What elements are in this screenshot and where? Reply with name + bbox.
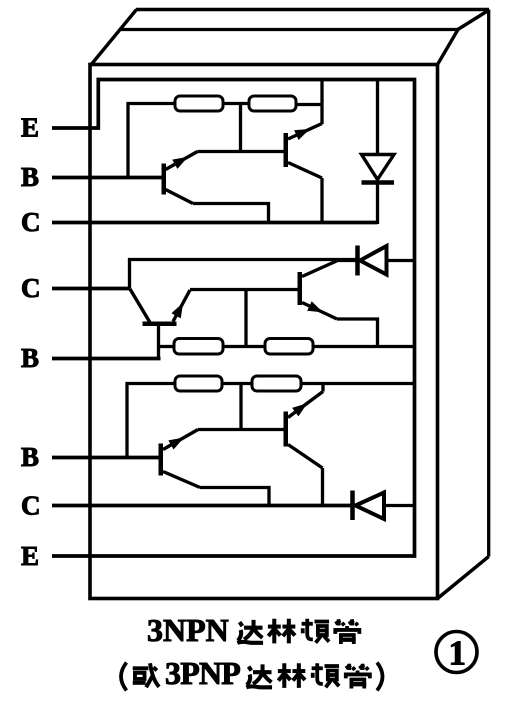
transistor Q2 [284, 124, 323, 179]
pin label E (top) [21, 113, 39, 143]
diode D2 (cathode left, anode to E rail) [358, 246, 415, 276]
wire pin C2 lead [52, 287, 130, 291]
pin label B (circuit 1) [21, 162, 39, 192]
package outline: bottom-right slant edge [438, 557, 489, 599]
wire R2 to Q2 emitter riser [296, 103, 322, 106]
wire pin B1 lead [52, 176, 162, 180]
wire junction drop R1/R2 node to Q1 emitter line [239, 104, 242, 152]
svg-text:C: C [21, 207, 41, 237]
circled figure number 1 [436, 632, 477, 673]
pin label B (circuit 3) [21, 442, 39, 472]
wire C2 riser and top run to D2 [130, 260, 358, 289]
transistor Q6 [284, 384, 324, 469]
package outline: top-right chamfer upper [457, 10, 489, 30]
svg-text:C: C [21, 491, 41, 521]
resistor R5 [175, 376, 222, 391]
pin label C (circuit 1) [21, 207, 41, 237]
wire Q2 collector drop to C1 rail [320, 178, 323, 223]
resistor R2 [249, 96, 296, 111]
svg-text:E: E [21, 541, 39, 571]
wire R1 to R2 [223, 102, 249, 105]
wire Q4 emitter run to R4-E wire [337, 319, 378, 347]
wire R3 to R4 [223, 345, 265, 348]
svg-text:B: B [21, 162, 39, 192]
package outline: top-left slant edge [90, 10, 137, 67]
wire B1 branch riser to R1 [128, 104, 175, 178]
diode D1 (E rail to C1 rail) [362, 80, 395, 225]
pin label E (bottom) [21, 541, 39, 571]
transistor Q5 [159, 430, 201, 488]
caption line 2 latin: 3PNP [165, 655, 240, 691]
diode D3 (cathode left, anode to E rail) [353, 491, 415, 521]
wire B3 branch riser to R5 [127, 384, 175, 458]
wire junction riser R3/R4 node to Q3 emitter line [244, 290, 247, 347]
resistor R3 [174, 339, 223, 355]
package outline: top-right chamfer lower [438, 30, 459, 65]
resistor R6 [252, 376, 301, 391]
svg-text:B: B [21, 442, 39, 472]
svg-text:3NPN: 3NPN [147, 612, 229, 648]
wire Q1 emitter to Q2 base [198, 150, 284, 153]
wire R6 to E rail [301, 382, 415, 385]
wire R3 left lead to Q3 base [159, 345, 175, 348]
wire pin C3 lead [52, 504, 353, 508]
wire junction drop R5/R6 node to Q5 emitter line [239, 384, 242, 430]
caption line 1 hanzi: da lin dun guan [237, 619, 359, 644]
wire R5 to R6 [222, 382, 252, 385]
svg-text:C: C [21, 273, 41, 303]
pin label C (circuit 3) [21, 491, 41, 521]
wire R4 to E rail [313, 345, 415, 348]
resistor R1 [175, 96, 223, 111]
wire pin C1 lead [52, 221, 378, 225]
pin label C (circuit 2) [21, 273, 41, 303]
package outline: back-right vertical edge [487, 10, 490, 557]
svg-text:3PNP: 3PNP [165, 655, 240, 691]
wire pin B2 lead [52, 357, 161, 361]
caption line 2 open paren [121, 663, 127, 691]
transistor Q4 [298, 261, 338, 319]
package outline: lid mid line [119, 28, 458, 31]
wire pin B3 lead [52, 456, 161, 460]
resistor R4 [265, 339, 313, 355]
wire Q4 collector to D2 cathode [337, 259, 358, 262]
caption line 2 hanzi huo [133, 663, 159, 687]
wire Q2 emitter riser to E rail [320, 80, 323, 125]
node E (top pin) wire and emitter-rail loop wire [52, 80, 415, 557]
wire Q5 collector run to C3 rail [200, 488, 269, 506]
pin label B (circuit 2) [21, 343, 39, 373]
package outline: top face back edge [136, 8, 489, 11]
wire Q6 collector drop to C3 rail [321, 468, 324, 506]
svg-text:1: 1 [449, 634, 467, 673]
wire Q5 emitter to Q6 base [198, 428, 284, 431]
wire Q1 collector run to C1 rail [193, 204, 269, 223]
wire Q3 emitter to Q4 base [190, 288, 298, 291]
transistor Q1 [162, 152, 198, 204]
package outline: 3D box front face [90, 65, 438, 599]
caption line 1 latin: 3NPN [147, 612, 229, 648]
caption line 2 close paren [377, 663, 383, 691]
svg-text:E: E [21, 113, 39, 143]
transistor Q3 [130, 289, 190, 359]
svg-text:B: B [21, 343, 39, 373]
caption line 2 hanzi: da lin dun guan [246, 663, 370, 688]
